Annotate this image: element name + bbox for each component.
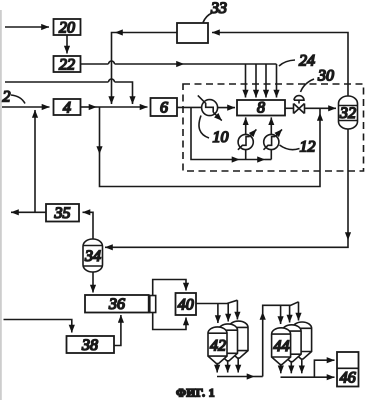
label 10 leader <box>199 116 209 139</box>
wire heater 12b to box 8 bottom <box>270 117 272 134</box>
vessel 44 middle <box>282 325 301 362</box>
box 6 <box>151 98 178 116</box>
wire box 40 feed to reactors 42 <box>196 300 237 303</box>
svg-text:38: 38 <box>81 337 98 354</box>
wire bypass from main line down under dashed box and up to valve outlet <box>99 107 101 154</box>
svg-text:34: 34 <box>84 248 101 265</box>
wire vessel 34 top to box 35 <box>83 212 94 239</box>
heat exchanger 10 <box>198 95 222 120</box>
scan edge artifact <box>0 10 2 400</box>
heater 12b <box>264 129 283 149</box>
svg-text:32: 32 <box>339 105 356 122</box>
box 35 <box>46 204 79 222</box>
heater 12a <box>238 129 257 149</box>
box 46 <box>337 352 359 387</box>
dashed enclosure 30 region <box>183 84 364 171</box>
wire tee down to heater feed line <box>191 107 240 159</box>
box 22 <box>54 56 81 73</box>
wire box 38 to box 36 bottom <box>114 315 121 346</box>
box 40 <box>176 293 197 315</box>
wire vessel 34 bottom to box 36 <box>92 272 94 293</box>
wire feed into box 20 <box>5 26 49 28</box>
label 30 leader <box>301 79 315 92</box>
wire heater 12a to box 8 bottom <box>245 117 247 134</box>
svg-text:12: 12 <box>300 139 316 156</box>
box 38 <box>67 336 115 354</box>
wire collection line 44 to box 46 lower inlet <box>281 376 335 378</box>
wire exchanger 10 to box 8 <box>218 107 235 109</box>
label 12 leader <box>280 145 300 150</box>
end compartment of box 36 <box>150 296 156 313</box>
wire box 8 to valve 30 <box>285 107 294 109</box>
wire riser into heater 12b <box>270 149 272 159</box>
svg-text:20: 20 <box>59 19 75 36</box>
wire from box 22 to drop lines 24 (hop over vertical) <box>81 63 109 65</box>
svg-text:8: 8 <box>257 100 265 117</box>
wire box 4 to box 6 <box>81 106 97 108</box>
box 8 <box>237 100 285 117</box>
svg-text:36: 36 <box>108 296 125 313</box>
wire loop from box 36 end to box 40 bottom <box>153 313 186 330</box>
vessel 42 middle <box>219 324 238 361</box>
vessel 42 rear <box>229 321 248 358</box>
valve 30 <box>294 96 305 114</box>
vessel 32 <box>339 96 358 129</box>
box 4 <box>54 99 81 116</box>
wire feed into box 38 from left <box>4 320 72 333</box>
wire collection line 42 to riser <box>217 376 255 378</box>
label 24 leader <box>279 60 295 66</box>
reactor train 44 (three vessels) <box>272 322 312 364</box>
vessel 42 front <box>208 327 227 364</box>
box 20 <box>54 19 81 36</box>
wire vessel 32 bottom down <box>347 129 349 240</box>
box 36 <box>85 295 149 313</box>
svg-text:2: 2 <box>3 89 11 106</box>
svg-text:33: 33 <box>210 0 227 17</box>
svg-text:22: 22 <box>59 56 75 73</box>
wire box 6 to exchanger 10 <box>177 106 202 108</box>
svg-text:42: 42 <box>210 337 226 354</box>
wire main feed line into box 4 <box>2 106 50 108</box>
svg-text:10: 10 <box>213 129 229 146</box>
wire box 33 output going left and down to main line <box>115 32 177 34</box>
svg-text:30: 30 <box>317 68 334 85</box>
wire box 20 to box 22 <box>66 35 68 54</box>
node feed drops into reactors 42 <box>217 304 219 324</box>
vessel 44 front <box>272 328 291 365</box>
box 33 <box>177 23 208 43</box>
wire loop from box 36 end to box 40 top <box>153 280 186 296</box>
node feed drops into reactors 44 <box>280 305 282 324</box>
svg-text:24: 24 <box>299 53 315 70</box>
label 2 leader <box>11 95 25 104</box>
wire box 35 output to left <box>11 211 46 213</box>
wire box 35 recycle up to main line <box>34 110 36 212</box>
svg-text:6: 6 <box>160 99 168 116</box>
svg-text:ФИГ. 1: ФИГ. 1 <box>176 388 215 400</box>
wire branch up to box 46 upper inlet <box>314 360 334 377</box>
wire side feed at y82 (hop) into main line <box>5 81 109 83</box>
label 33 leader <box>203 13 212 23</box>
node reactor 44 outlets <box>280 365 282 374</box>
node reactor 42 outlets <box>216 364 218 373</box>
svg-text:46: 46 <box>340 370 356 387</box>
reactor train 42 (three vessels) <box>208 321 248 364</box>
vessel 34 <box>83 239 103 272</box>
wire riser to reactors 44 feed <box>262 312 264 377</box>
wire vessel 32 top to box 33 <box>212 33 348 97</box>
svg-text:40: 40 <box>178 296 194 313</box>
vessel 44 rear <box>293 322 312 359</box>
svg-text:35: 35 <box>54 205 71 222</box>
wire to vessel 34 side <box>105 240 348 247</box>
svg-text:44: 44 <box>274 338 290 355</box>
wire valve 30 to vessel 32 <box>304 107 336 109</box>
node drop lines 24 into box 8 <box>245 64 247 98</box>
wire riser into heater 12a <box>245 149 247 159</box>
svg-text:4: 4 <box>63 99 71 116</box>
